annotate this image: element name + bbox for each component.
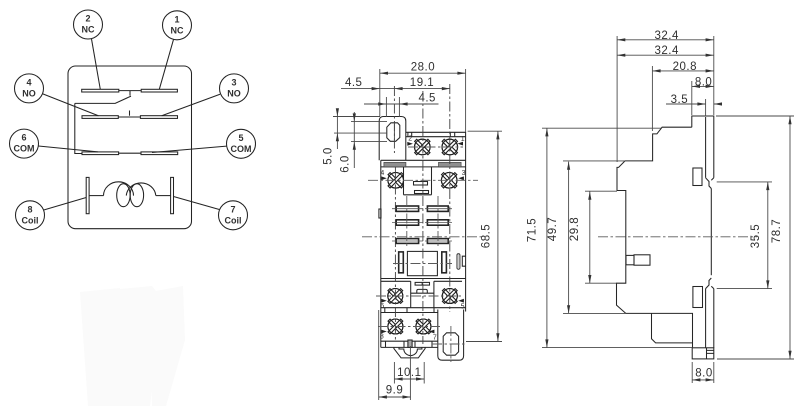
centerline row4 bbox=[378, 326, 440, 328]
centerline side view bbox=[598, 236, 757, 238]
terminal slots bbox=[396, 206, 448, 243]
ext line hole top bbox=[351, 121, 387, 123]
dimension 10.1 line bbox=[394, 378, 424, 380]
relay window square bbox=[407, 251, 437, 275]
leader wire pin5 bbox=[152, 146, 227, 152]
svg-text:Coil: Coil bbox=[225, 215, 242, 225]
dimension 71.5 bbox=[546, 128, 548, 347]
svg-text:8.0: 8.0 bbox=[695, 368, 713, 380]
dimension arrows front view bbox=[336, 72, 500, 399]
dimensions front view bbox=[333, 69, 502, 400]
svg-text:20.8: 20.8 bbox=[673, 61, 697, 73]
leader wire pin1 bbox=[159, 40, 173, 90]
clip window bottom bbox=[693, 287, 703, 308]
pin circle 8 Coil bbox=[16, 201, 45, 230]
mounting foot bbox=[394, 347, 425, 358]
pin circle 3 NO bbox=[220, 74, 249, 103]
svg-text:6.0: 6.0 bbox=[339, 155, 351, 173]
wire NO center link bbox=[118, 116, 140, 118]
svg-text:COM: COM bbox=[14, 144, 35, 154]
screw terminal 4 bbox=[388, 173, 404, 189]
pin circle 7 Coil bbox=[219, 201, 248, 230]
foot notch bbox=[399, 347, 422, 355]
centerline row2 bbox=[368, 179, 478, 181]
screw terminal 1 bbox=[442, 139, 458, 155]
dimension texts side view bbox=[527, 30, 784, 380]
svg-text:29.8: 29.8 bbox=[569, 217, 581, 241]
svg-text:8.0: 8.0 bbox=[695, 76, 713, 88]
ext line clip inner bbox=[705, 99, 707, 116]
screw terminal 3 bbox=[441, 173, 457, 189]
pin circle 6 COM bbox=[10, 129, 39, 158]
ext line bottom left bbox=[542, 347, 693, 349]
wire coil left lead bbox=[89, 195, 103, 197]
svg-text:Coil: Coil bbox=[22, 215, 39, 225]
slot crosshair lines bbox=[392, 209, 452, 241]
svg-text:7: 7 bbox=[230, 204, 235, 214]
ext line 35.5 bottom bbox=[717, 288, 772, 290]
centerline bottom tab hole horizontal bbox=[432, 343, 466, 345]
center pocket rect bbox=[414, 182, 428, 186]
ext line step x652 bbox=[651, 66, 653, 131]
ext line foot left bbox=[393, 362, 395, 384]
centerline slot col left bbox=[406, 196, 408, 248]
dimension arrows side view bbox=[545, 38, 791, 381]
step between screw rows bbox=[381, 308, 466, 313]
coil plate left bbox=[86, 177, 89, 213]
flank rect left bbox=[399, 252, 404, 273]
dimension 4.5 second line bbox=[364, 103, 439, 105]
centerline tab hole front bbox=[393, 124, 395, 140]
terminal band dark bar right bbox=[439, 162, 462, 167]
lower housing step bbox=[381, 279, 466, 282]
defs bbox=[10, 10, 256, 230]
wire NO pole tick bbox=[129, 111, 131, 116]
contact bar COM left bbox=[82, 152, 119, 155]
dimension 32.4 second bbox=[617, 54, 714, 56]
svg-text:8: 8 bbox=[380, 333, 384, 340]
ext line hole bottom bbox=[351, 141, 387, 143]
ext line hole width left bbox=[385, 97, 387, 117]
ext line tab top bbox=[333, 116, 380, 118]
centerline slot col right bbox=[437, 196, 439, 248]
screw terminal 5 bbox=[442, 289, 457, 304]
ext line 78.7 bottom bbox=[717, 358, 794, 360]
svg-text:7: 7 bbox=[433, 334, 437, 341]
screw terminal 6 bbox=[388, 289, 403, 304]
svg-text:NO: NO bbox=[227, 88, 241, 98]
dimension 28.0 bbox=[380, 72, 466, 74]
svg-text:NO: NO bbox=[22, 88, 36, 98]
wire armature diagonal bbox=[75, 96, 131, 103]
clip window top bbox=[693, 168, 702, 186]
ext line foot left bbox=[691, 362, 693, 383]
coil L1 arc left bbox=[104, 182, 134, 196]
bottom band bbox=[381, 341, 438, 347]
flank rect right bbox=[442, 252, 447, 273]
leader wire pin4 bbox=[43, 94, 99, 116]
top strip ticks bbox=[408, 132, 455, 136]
centerline left screw column bbox=[394, 167, 396, 340]
ext line 68.5 bottom bbox=[466, 341, 502, 343]
right edge bottom bbox=[713, 289, 715, 348]
ext line hole center bbox=[334, 132, 387, 134]
coil L1 arc right bbox=[126, 183, 156, 196]
ext line 78.7 top bbox=[716, 115, 794, 117]
svg-text:NC: NC bbox=[82, 25, 95, 35]
lower center slot bbox=[415, 282, 429, 285]
right side slot bbox=[457, 254, 460, 270]
center slot rect bbox=[415, 191, 429, 194]
pin circle 5 COM bbox=[227, 129, 256, 158]
contact bar NC right bbox=[141, 89, 177, 92]
ext line front top bbox=[585, 190, 617, 192]
leader wire pin2 bbox=[92, 39, 101, 89]
centerline mid column bbox=[422, 91, 424, 344]
dimension 35.5 bbox=[767, 182, 769, 289]
side profile top clip bbox=[692, 116, 714, 178]
wire COM-to-armature vertical bbox=[75, 103, 82, 153]
lower housing walls bbox=[411, 281, 434, 307]
pin circle 1 NC bbox=[163, 11, 192, 40]
bottom center pin rect bbox=[408, 340, 412, 347]
svg-text:68.5: 68.5 bbox=[481, 224, 493, 248]
pin circle 2 NC bbox=[74, 10, 103, 39]
svg-text:78.7: 78.7 bbox=[771, 219, 783, 243]
dimension 8.0 bottom bbox=[692, 379, 714, 381]
ext line step y313 bbox=[563, 312, 626, 314]
svg-text:2: 2 bbox=[408, 135, 412, 142]
svg-text:3.5: 3.5 bbox=[671, 94, 689, 106]
right edge bump bbox=[462, 256, 465, 266]
screw terminal 8 bbox=[388, 319, 403, 334]
bottom tab right bbox=[438, 310, 464, 361]
terminal stub side bbox=[626, 255, 634, 264]
dimension 3.5 bbox=[666, 103, 722, 105]
side profile top edge bbox=[617, 127, 693, 348]
ext line foot right bbox=[713, 362, 715, 383]
svg-text:71.5: 71.5 bbox=[527, 218, 539, 242]
ext line 68.5 top bbox=[468, 130, 502, 132]
centerline relay window bbox=[393, 263, 452, 265]
dimension 8.0 top bbox=[692, 85, 714, 87]
ext line body top left bbox=[542, 127, 661, 129]
coil plate right bbox=[171, 177, 174, 213]
latch bottom bbox=[706, 278, 714, 289]
din foot box divider bbox=[707, 348, 714, 359]
clip inner wall bottom bbox=[705, 289, 707, 348]
pin circle 4 NO bbox=[15, 74, 44, 103]
ext line body left bottom bbox=[378, 310, 380, 400]
contact bar NC left bbox=[82, 89, 119, 92]
svg-text:6: 6 bbox=[380, 303, 384, 310]
centerline right screw column bbox=[449, 84, 451, 312]
screw terminal 7 bbox=[416, 319, 431, 334]
dimension 32.4 first bbox=[617, 39, 714, 41]
bottom tab hole octagon bbox=[443, 333, 458, 355]
svg-text:5: 5 bbox=[461, 303, 465, 310]
wire NC center link bbox=[119, 90, 141, 92]
svg-text:4: 4 bbox=[26, 77, 31, 87]
centerline row1 bbox=[408, 146, 463, 148]
svg-text:3: 3 bbox=[231, 77, 236, 87]
contact bar NO left bbox=[82, 116, 118, 119]
centerline row3 bbox=[376, 295, 462, 297]
mid right edge bbox=[710, 189, 712, 276]
relay outline bbox=[68, 66, 192, 229]
ext line 35.5 top bbox=[717, 181, 772, 183]
contact bar NO right bbox=[140, 116, 177, 119]
dimension 68.5 line bbox=[497, 131, 499, 341]
ext line body left top bbox=[379, 69, 381, 116]
svg-text:4: 4 bbox=[380, 170, 384, 177]
coil L1 loop left bbox=[117, 184, 130, 207]
ext line foot center bbox=[409, 346, 411, 400]
centerlines front view bbox=[362, 84, 482, 362]
dimensions side view bbox=[542, 36, 794, 383]
din foot box bbox=[692, 348, 714, 359]
leader wire pin3 bbox=[162, 94, 220, 115]
svg-text:4.5: 4.5 bbox=[418, 92, 436, 104]
svg-text:5.0: 5.0 bbox=[323, 147, 335, 165]
dimension 9.9 line bbox=[379, 396, 411, 398]
svg-text:32.4: 32.4 bbox=[655, 45, 679, 57]
ext line foot right bbox=[423, 362, 425, 384]
dimension 49.7 bbox=[568, 162, 570, 314]
body outline front view bbox=[381, 132, 466, 347]
din rail slot bbox=[652, 313, 693, 343]
center channel walls bbox=[404, 167, 432, 195]
svg-text:2: 2 bbox=[85, 14, 90, 24]
svg-text:10.1: 10.1 bbox=[397, 367, 421, 379]
ext line clip left bbox=[691, 81, 693, 115]
svg-text:9.9: 9.9 bbox=[386, 385, 404, 397]
mounting hole octagon bbox=[387, 123, 400, 142]
centerline tab hole vertical bbox=[393, 86, 395, 153]
dimension 78.7 bbox=[789, 116, 791, 359]
coil L1 loop right bbox=[130, 184, 143, 207]
screws bbox=[388, 139, 458, 334]
ext line left face upper bbox=[616, 36, 618, 162]
svg-text:3: 3 bbox=[462, 170, 466, 177]
mounting tab top-left bbox=[379, 117, 406, 161]
clip inner wall top bbox=[705, 117, 707, 178]
ext line step y161 bbox=[563, 160, 625, 162]
ext line right edge top bbox=[713, 36, 715, 115]
contact bar COM right bbox=[141, 152, 178, 155]
dimension 29.8 bbox=[589, 192, 591, 284]
dimension texts front view bbox=[323, 62, 493, 397]
center hat bump bbox=[411, 289, 434, 293]
centerline bottom tab hole vertical bbox=[450, 326, 452, 362]
dimension 19.1 / 4.5 line bbox=[341, 88, 450, 90]
svg-text:8: 8 bbox=[27, 204, 32, 214]
wire NC pole tick bbox=[129, 91, 131, 96]
terminal number labels bbox=[380, 135, 466, 341]
centerline main horizontal bbox=[362, 236, 482, 238]
wire coil right lead bbox=[156, 195, 171, 197]
svg-text:32.4: 32.4 bbox=[655, 30, 679, 42]
leader wire pin6 bbox=[38, 146, 98, 152]
svg-text:49.7: 49.7 bbox=[547, 217, 559, 241]
svg-text:NC: NC bbox=[171, 25, 184, 35]
dimension 20.8 bbox=[652, 70, 713, 72]
svg-text:5: 5 bbox=[238, 133, 243, 143]
screw terminal 2 bbox=[415, 139, 431, 155]
latch top bbox=[706, 178, 714, 189]
svg-text:4.5: 4.5 bbox=[345, 77, 363, 89]
dimension 5.0 line bbox=[336, 109, 338, 150]
svg-text:6: 6 bbox=[21, 133, 26, 143]
ext line front bottom bbox=[585, 282, 617, 284]
svg-text:35.5: 35.5 bbox=[750, 224, 762, 248]
left edge notch bbox=[379, 209, 381, 218]
svg-text:19.1: 19.1 bbox=[410, 77, 434, 89]
svg-text:28.0: 28.0 bbox=[411, 62, 435, 74]
watermark bbox=[80, 286, 185, 406]
ext line body right top bbox=[465, 69, 467, 132]
svg-text:COM: COM bbox=[231, 144, 252, 154]
wire COM center link bbox=[119, 152, 141, 154]
terminal band dark bar left bbox=[384, 162, 406, 167]
ext line hole width right bbox=[398, 97, 400, 117]
leader wire pin8 bbox=[43, 198, 86, 211]
svg-text:1: 1 bbox=[174, 14, 179, 24]
leader wire pin7 bbox=[174, 197, 220, 210]
dimension 6.0 line bbox=[353, 112, 355, 168]
